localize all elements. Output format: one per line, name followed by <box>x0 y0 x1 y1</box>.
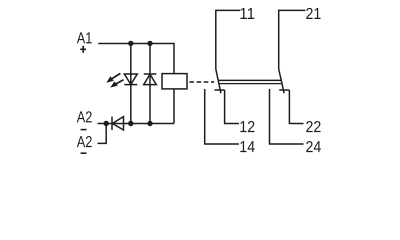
node junction top diode <box>147 41 152 46</box>
svg-text:A2: A2 <box>77 134 93 151</box>
contact 1 NC contact 12 <box>214 90 239 124</box>
contact 2 NC contact 22 <box>279 90 303 124</box>
diode D3 series protection <box>112 117 124 130</box>
svg-text:14: 14 <box>239 139 255 156</box>
svg-text:24: 24 <box>305 139 321 156</box>
relay coil K1 <box>162 74 187 89</box>
minus polarity mark lower <box>81 152 87 154</box>
diode D2 freewheel <box>144 74 157 85</box>
plus polarity mark <box>80 46 86 53</box>
contact 2 terminal 21 wire <box>279 10 306 69</box>
wire A2 bottom bus <box>98 123 175 125</box>
minus polarity mark upper <box>81 129 87 131</box>
wire A2 lower stub <box>98 124 107 144</box>
wire freewheel diode branch <box>149 44 151 124</box>
actuator bar double line <box>218 80 281 83</box>
svg-text:21: 21 <box>305 6 321 23</box>
node junction bottom A2 stub <box>104 121 109 126</box>
LED light emission arrows <box>107 73 123 87</box>
svg-text:11: 11 <box>239 6 255 23</box>
contact 1 terminal 11 wire <box>216 10 240 69</box>
node junction bottom LED <box>128 121 133 126</box>
node junction bottom diode <box>147 121 152 126</box>
svg-text:A1: A1 <box>77 30 93 47</box>
contact 2 movable blade <box>279 69 284 93</box>
contact 1 NO contact 14 <box>205 89 239 144</box>
svg-text:A2: A2 <box>77 109 93 126</box>
contact 1 movable blade <box>216 69 221 93</box>
node junction top LED <box>128 41 133 46</box>
wire LED branch <box>130 44 132 124</box>
wire coil bottom <box>173 89 175 124</box>
contact 2 NO contact 24 <box>270 89 304 144</box>
wire A1 top bus <box>98 44 174 74</box>
svg-text:22: 22 <box>305 119 321 136</box>
LED D1 <box>124 74 137 85</box>
mechanical link dashed <box>189 81 214 83</box>
svg-text:12: 12 <box>239 119 255 136</box>
